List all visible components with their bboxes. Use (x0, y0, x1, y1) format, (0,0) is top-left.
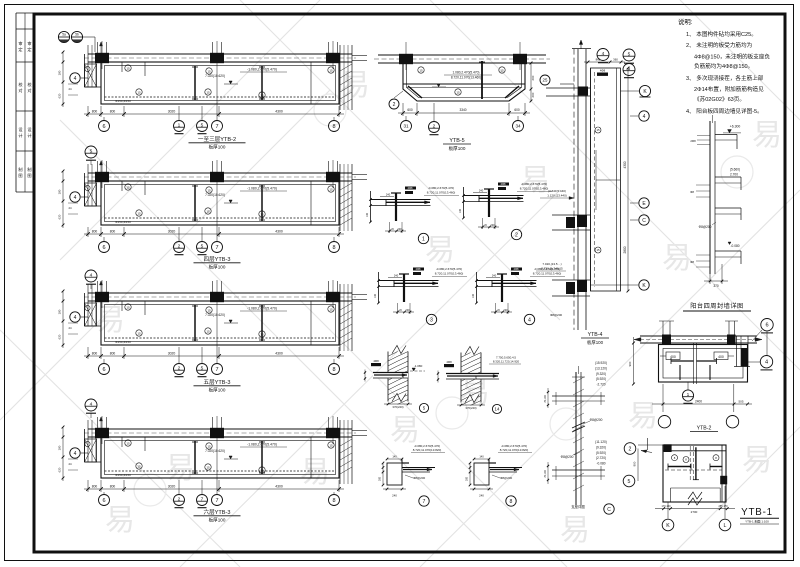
level mark triangle (229, 200, 232, 203)
YTB-4 right bubble 4b (630, 115, 638, 117)
YTB-4 stub bottom (552, 279, 590, 281)
stepped left ticks 3 (696, 254, 710, 256)
stepped wall section (683, 115, 751, 311)
svg-text:一至三层YTB-2: 一至三层YTB-2 (198, 136, 236, 143)
wall band top line (88, 428, 352, 430)
detail 3 slab lines (379, 280, 439, 282)
svg-text:Φ8@200: Φ8@200 (561, 455, 574, 459)
svg-text:3340: 3340 (459, 108, 466, 112)
section cut bubble 2 (178, 347, 180, 363)
column C3 centerline (332, 41, 334, 69)
section cut bubble 2 (178, 227, 180, 241)
svg-text:3020: 3020 (168, 230, 176, 234)
column C3 block (326, 292, 340, 302)
svg-text:-1.080,2.670(5.470): -1.080,2.670(5.470) (247, 307, 277, 311)
left wall edge (84, 173, 86, 206)
plan view YTB-2 detail (628, 319, 773, 432)
svg-text:易: 易 (460, 376, 490, 409)
grid bubble 7 (216, 117, 218, 120)
left wall bottom tick (85, 205, 102, 207)
column 1 centerline up arrow (100, 42, 102, 56)
small ring marks (125, 440, 131, 446)
YTB-4 top bubbles 5-6 (623, 49, 635, 61)
interior detail ticks (144, 181, 146, 195)
right end wall hatch (340, 439, 352, 446)
svg-text:1、 本图构件砧均采用C25。: 1、 本图构件砧均采用C25。 (686, 30, 757, 38)
svg-text:15: 15 (329, 307, 333, 311)
svg-text:15: 15 (137, 211, 141, 215)
svg-text:易: 易 (390, 414, 420, 447)
svg-text:15: 15 (260, 468, 264, 472)
section detail 1 (366, 186, 459, 244)
detail 3 bubble (426, 314, 436, 324)
svg-text:板厚100: 板厚100 (209, 144, 226, 151)
column C1 block (95, 53, 109, 63)
YTB-5 right bubble 25 (540, 75, 550, 85)
svg-text:24: 24 (68, 87, 72, 91)
detail C break marks (572, 422, 585, 428)
YTB-2 band right arrow (755, 338, 762, 342)
left wall column hatch (85, 183, 97, 206)
svg-text:1: 1 (178, 123, 181, 129)
svg-text:15: 15 (207, 444, 211, 448)
general notes (678, 17, 770, 115)
svg-text:支座详图: 支座详图 (571, 504, 585, 509)
column C2 centerline (216, 416, 218, 444)
slab outline outer (101, 437, 339, 478)
svg-text:1: 1 (687, 392, 690, 398)
svg-text:4: 4 (765, 360, 768, 366)
detail 14 slab band (446, 374, 499, 380)
svg-text:300: 300 (379, 476, 382, 481)
detail 3 bold labels (413, 268, 424, 271)
level mark triangle (229, 320, 232, 323)
section cut bubble 5 (201, 227, 203, 241)
detail 2 top hook (484, 188, 494, 190)
interior detail ticks (144, 437, 146, 451)
detail 1 top hook (391, 192, 401, 194)
wall band top line (88, 172, 352, 174)
svg-text:360: 360 (613, 57, 618, 61)
svg-text:4: 4 (74, 315, 77, 321)
column C2 wall ticks above (212, 161, 214, 173)
detail 1 wall bar (395, 193, 397, 221)
detail 7 left dims (382, 463, 384, 485)
wall band centerline (84, 432, 356, 434)
interior wall line (310, 437, 312, 478)
svg-text:255,170: 255,170 (718, 505, 728, 508)
svg-text:15: 15 (207, 69, 211, 73)
detail 8 wall rect (474, 463, 489, 485)
svg-text:制: 制 (27, 166, 31, 173)
detail 2 rebar in slab (479, 197, 523, 199)
detail 4 left wall face (476, 272, 478, 303)
YTB-4 small rings (595, 127, 601, 133)
column C2 wall ticks above (212, 281, 214, 293)
svg-text:6: 6 (102, 367, 105, 373)
detail 7 bottom dim (383, 488, 406, 490)
svg-text:15: 15 (206, 209, 210, 213)
svg-text:15: 15 (206, 465, 210, 469)
svg-text:4Φ8: 4Φ8 (373, 359, 379, 363)
left wall edge (84, 293, 86, 326)
svg-text:-0.080,2.670(5.470): -0.080,2.670(5.470) (521, 182, 547, 186)
left dimension column (62, 291, 64, 348)
slab outline inner (105, 441, 336, 475)
svg-text:2Φ14布置，附加筋筋构造见: 2Φ14布置，附加筋筋构造见 (694, 85, 764, 93)
plan view YTB-3 floor 6 (58, 416, 368, 524)
YTB-1 break zigzag (688, 498, 702, 505)
svg-text:180: 180 (58, 70, 62, 75)
column C3 centerline (332, 416, 334, 444)
svg-text:Φ8@200: Φ8@200 (550, 313, 562, 317)
svg-text:1.080,2.470(5.470): 1.080,2.470(5.470) (453, 71, 480, 75)
svg-text:200: 200 (406, 309, 411, 312)
plan view YTB-3 floor 5 (58, 280, 368, 418)
YTB-4 wall verticals (573, 49, 575, 330)
svg-text:2: 2 (629, 446, 632, 452)
svg-text:(15.920): (15.920) (595, 361, 607, 365)
svg-text:8.320,11.720,14.920: 8.320,11.720,14.920 (493, 360, 520, 364)
slab outline outer (101, 181, 339, 225)
dimension line (84, 233, 344, 235)
YTB-5 column block (399, 54, 413, 64)
svg-text:易: 易 (628, 400, 658, 433)
svg-text:7.020(10.620): 7.020(10.620) (205, 313, 225, 317)
svg-text:L: L (724, 523, 727, 529)
column C2 block (210, 292, 224, 302)
svg-text:六层YTB-3: 六层YTB-3 (203, 508, 230, 516)
svg-text:-0.080: -0.080 (596, 462, 605, 466)
svg-text:2Φ8: 2Φ8 (690, 139, 696, 143)
detail 14 break bottom (465, 395, 479, 403)
watermark circles (134, 94, 753, 506)
svg-text:300: 300 (466, 476, 469, 481)
svg-text:5: 5 (628, 52, 631, 58)
svg-text:(13.120): (13.120) (595, 366, 607, 370)
YTB-5 dimension line (398, 112, 530, 114)
detail 14 left dim (437, 371, 439, 383)
svg-text:600: 600 (531, 92, 535, 97)
svg-text:-1.080,2.670(5.470): -1.080,2.670(5.470) (247, 443, 277, 447)
left wall edge (84, 429, 86, 462)
detail 5 left dim (364, 370, 366, 382)
svg-text:800: 800 (92, 230, 98, 234)
slab outline inner (105, 305, 336, 342)
svg-text:370(240): 370(240) (465, 406, 476, 410)
svg-text:Φ8@200: Φ8@200 (500, 476, 512, 480)
svg-text:15: 15 (419, 68, 423, 72)
YTB-4 right bubble E (630, 202, 638, 204)
svg-text:15: 15 (126, 66, 130, 70)
left detail bubble 4 (81, 452, 88, 454)
interior detail ticks (144, 301, 146, 315)
YTB-1 rebar bars (668, 466, 691, 468)
svg-text:2: 2 (178, 497, 181, 503)
detail 3 left wall face (378, 272, 380, 303)
YTB-2 bubble connector (766, 331, 768, 355)
detail 1 slab lines (371, 199, 431, 201)
svg-text:4Φ8: 4Φ8 (416, 267, 422, 271)
detail 2 slab lines (464, 195, 524, 197)
svg-text:Φ150,Φ150: Φ150,Φ150 (115, 220, 131, 224)
detail 3 left dims (377, 279, 380, 282)
svg-text:-1.080: -1.080 (414, 364, 423, 368)
wall band bottom line (88, 180, 352, 182)
interior wall line (310, 181, 312, 225)
svg-text:板厚100: 板厚100 (209, 387, 226, 394)
svg-text:审: 审 (27, 40, 31, 47)
column C1 block (95, 172, 109, 182)
rebar bar vertical 1 (194, 185, 196, 221)
section cut bubble 5 (201, 347, 203, 363)
YTB-1 rebar tag rings (672, 455, 678, 461)
YTB-2 right wall (736, 336, 738, 367)
stepped left ticks 2 (696, 184, 710, 186)
svg-text:240: 240 (492, 274, 497, 278)
svg-text:Φ8@200: Φ8@200 (699, 225, 712, 229)
YTB-1 center rebar (695, 447, 697, 479)
wall band right extension (352, 55, 367, 57)
grid bubble 6 (103, 117, 105, 120)
grid line axis 7 through slab (216, 444, 218, 492)
detail 2 bottom dims (478, 226, 499, 228)
svg-text:15: 15 (207, 308, 211, 312)
YTB-5 left cut bubble 2 (389, 99, 399, 109)
YTB-5 trapezoid slab outer (403, 63, 525, 101)
detail 14 break top (465, 347, 479, 355)
svg-text:4Φ8: 4Φ8 (514, 267, 520, 271)
detail 2 top-left dim (473, 192, 487, 194)
svg-text:《苏02G02》63页。: 《苏02G02》63页。 (694, 95, 745, 103)
right end wall hatch (340, 183, 352, 190)
svg-text:6: 6 (765, 323, 768, 329)
rebar bar vertical 2 (261, 305, 263, 341)
slab bottom rebar line (105, 217, 336, 219)
detail 4 top-left dim (486, 277, 500, 279)
grid line axis 7 through slab (216, 69, 218, 117)
grid bubble 8 (333, 117, 335, 120)
svg-text:2800: 2800 (623, 246, 627, 253)
YTB-1 inner bottom lines (671, 487, 721, 489)
wall band bottom line (88, 300, 352, 302)
svg-text:YTB-2: YTB-2 (697, 426, 712, 432)
svg-text:2: 2 (178, 366, 181, 372)
detail 5 break top (392, 346, 406, 354)
dimension line (84, 355, 344, 357)
YTB-5 column centerline (519, 42, 521, 70)
svg-text:24: 24 (68, 326, 72, 330)
svg-text:4Φ8: 4Φ8 (446, 360, 452, 364)
svg-text:8.720,11.070(13.460): 8.720,11.070(13.460) (520, 187, 548, 191)
svg-text:800: 800 (110, 352, 116, 356)
svg-text:31: 31 (403, 124, 409, 129)
detail 7 wall rect (387, 463, 402, 485)
svg-text:K: K (666, 523, 670, 529)
column C1 wall ticks above (97, 161, 99, 173)
svg-text:易: 易 (752, 119, 782, 152)
detail 3 ext lines (397, 303, 399, 314)
svg-text:200: 200 (504, 309, 509, 312)
svg-text:3020: 3020 (168, 485, 176, 489)
left wall column hatch (85, 303, 97, 326)
YTB-2 right bubble 4 (760, 356, 772, 368)
YTB-2 plan rect outer (659, 345, 748, 383)
grid bubble 8 (333, 492, 335, 494)
detail 4 slab lines (477, 280, 537, 282)
svg-text:70,100: 70,100 (544, 470, 547, 478)
left detail bubble 4 (81, 77, 88, 79)
svg-text:15: 15 (500, 68, 504, 72)
YTB-5 right dim (530, 63, 532, 101)
grid bubble 6 (103, 237, 105, 241)
column C2 centerline (216, 41, 218, 69)
YTB-1 top edge double (663, 450, 726, 452)
svg-text:易: 易 (165, 452, 195, 485)
YTB-2 column blocks (662, 335, 671, 346)
detail 5 wall outline (387, 352, 389, 402)
svg-text:15: 15 (126, 305, 130, 309)
YTB-5 column block (513, 54, 527, 64)
svg-text:-1.080,2.670(5.470): -1.080,2.670(5.470) (247, 187, 277, 191)
detail 8 bubble (506, 496, 516, 506)
YTB-2 400 box left (666, 352, 680, 360)
detail 2 bold labels (498, 183, 509, 186)
svg-text:240: 240 (479, 189, 484, 193)
detail 3 top hook (399, 273, 409, 275)
svg-text:240: 240 (479, 494, 484, 498)
left wall column hatch (85, 64, 97, 87)
detail 1 left wall face (370, 191, 372, 222)
slab bottom rebar line (105, 470, 336, 472)
column C3 block (326, 428, 340, 438)
svg-text:-0.080: -0.080 (730, 244, 739, 248)
wall band right extension (352, 174, 367, 176)
detail 7 rebar (403, 469, 432, 471)
svg-text:200: 200 (491, 224, 496, 227)
YTB-2 wall band (640, 335, 757, 337)
svg-text:240: 240 (394, 274, 399, 278)
svg-text:140: 140 (479, 455, 484, 459)
left wall column hatch (85, 439, 97, 462)
column C3 wall ticks above (328, 161, 330, 173)
section cut bubble 1 (178, 106, 180, 120)
svg-text:240: 240 (386, 193, 391, 197)
svg-text:4: 4 (528, 317, 531, 323)
YTB-1 grid circles K L (667, 502, 669, 519)
YTB-1 right edge double (721, 445, 723, 502)
svg-text:C: C (607, 507, 611, 513)
svg-text:2400: 2400 (695, 399, 702, 403)
column C2 block (210, 53, 224, 63)
svg-text:易: 易 (742, 444, 772, 477)
YTB-4 balcony outline (591, 68, 621, 291)
YTB-4 right bubble C (630, 219, 638, 221)
svg-text:8.720,11.070(13.460): 8.720,11.070(13.460) (435, 272, 463, 276)
detail 1 left dims (369, 198, 372, 201)
section mark to next level (85, 270, 97, 282)
section cut bubble 7 (201, 480, 203, 494)
detail 7 top dim (387, 458, 402, 460)
svg-text:4300: 4300 (275, 352, 283, 356)
svg-text:五层YTB-3: 五层YTB-3 (203, 379, 230, 386)
grid line axis 7 through slab (216, 188, 218, 237)
stepped wall stub 1 (715, 134, 737, 136)
plan view YTB-5 (374, 42, 550, 152)
left wall small ring (85, 305, 90, 310)
svg-text:100: 100 (459, 208, 462, 213)
svg-text:板厚100: 板厚100 (449, 145, 466, 152)
svg-text:5b: 5b (75, 33, 79, 37)
svg-text:5: 5 (201, 123, 204, 129)
detail C hatch ticks (573, 377, 584, 383)
right end wall verticals (339, 45, 341, 110)
stepped left ticks 1 (697, 135, 710, 137)
section mark to next level (85, 146, 97, 158)
detail 7 top hook (402, 462, 409, 464)
watermark glyphs (95, 69, 782, 547)
svg-text:(11.120): (11.120) (595, 440, 607, 444)
detail 8 top dim (474, 458, 489, 460)
rebar bar vertical 1 (194, 441, 196, 474)
slab outline inner (105, 66, 336, 101)
detail 3 bottom dims (393, 311, 414, 313)
detail 14 left bold label (444, 364, 454, 367)
left detail bubble 4 (81, 316, 88, 318)
svg-text:(9.320): (9.320) (596, 372, 606, 376)
detail 5 slab band (373, 373, 408, 379)
column C2 wall ticks above (212, 42, 214, 54)
svg-text:-0.080,2.670(5.470): -0.080,2.670(5.470) (436, 267, 462, 271)
column C2 wall ticks above (212, 417, 214, 429)
svg-text:易: 易 (520, 164, 550, 197)
svg-text:15: 15 (329, 443, 333, 447)
svg-text:6: 6 (102, 124, 105, 130)
svg-text:7: 7 (215, 124, 218, 130)
section detail 3 (374, 267, 467, 325)
column C1 wall ticks above (97, 42, 99, 54)
detail 8 bottom dim (470, 488, 493, 490)
column C3 block (326, 172, 340, 182)
YTB-2 plan rect inner (663, 349, 743, 379)
svg-text:6: 6 (102, 245, 105, 251)
YTB-5 grid bubble 34 (517, 116, 519, 121)
left wall bottom tick (85, 325, 102, 327)
svg-text:计: 计 (27, 132, 31, 139)
svg-text:定: 定 (18, 46, 22, 53)
svg-text:(5.920): (5.920) (596, 451, 606, 455)
svg-text:(2.720): (2.720) (596, 456, 606, 460)
wall band right extension (352, 430, 367, 432)
svg-text:7: 7 (423, 499, 426, 505)
rebar bar vertical 1 (194, 66, 196, 100)
svg-text:620: 620 (58, 214, 62, 219)
svg-text:5: 5 (201, 366, 204, 372)
column C1 centerline (101, 160, 103, 188)
svg-text:(9.320): (9.320) (596, 445, 606, 449)
detail 2 left dims (462, 194, 465, 197)
edge detail 8 (466, 444, 533, 506)
svg-text:说明:: 说明: (678, 17, 693, 26)
svg-text:4: 4 (74, 76, 77, 82)
detail 4 ext lines (495, 303, 497, 314)
svg-text:24: 24 (68, 462, 72, 466)
svg-text:25: 25 (543, 78, 548, 83)
column C1 block (95, 292, 109, 302)
svg-text:对: 对 (18, 87, 22, 93)
dimension extension lines (87, 106, 89, 117)
svg-text:14: 14 (495, 407, 500, 412)
